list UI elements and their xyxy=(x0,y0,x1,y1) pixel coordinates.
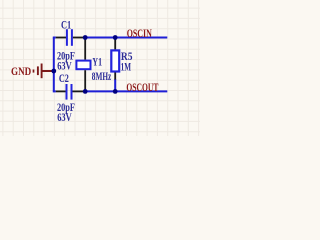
capacitor C2 xyxy=(53,73,85,124)
svg-text:OSCIN: OSCIN xyxy=(127,28,153,40)
svg-text:C1: C1 xyxy=(61,20,71,32)
C1 plate 1 xyxy=(66,29,68,46)
wire: bottom rail, node OSCOUT xyxy=(85,90,167,92)
wire: R5 bottom connection xyxy=(114,79,116,91)
svg-text:GND: GND xyxy=(11,66,31,78)
junction node C (bottom, crystal/C2/rail) xyxy=(83,89,88,94)
ground bar 2 xyxy=(37,66,39,75)
junction node B (top, R5/rail) xyxy=(113,35,118,40)
ground bar 3 xyxy=(41,64,43,79)
R5 pin 2 xyxy=(114,73,116,80)
C1 plate 2 xyxy=(71,29,73,46)
svg-text:63V: 63V xyxy=(57,61,72,73)
ground stem wire xyxy=(42,70,54,72)
svg-text:1M: 1M xyxy=(121,61,131,73)
grid (decorative) xyxy=(0,0,200,136)
wire: top rail, node OSCIN xyxy=(85,37,167,39)
wire stub to C2 pin 1 xyxy=(53,90,56,92)
svg-text:OSCOUT: OSCOUT xyxy=(126,82,158,94)
svg-text:Y1: Y1 xyxy=(92,57,102,69)
junction node A (top, crystal/C1/rail) xyxy=(83,35,88,40)
wire: left vertical bus from C1 pin to C2 pin xyxy=(53,38,55,92)
junction dot GND node xyxy=(51,69,56,74)
R5 pin 1 xyxy=(114,38,116,50)
C2 plate 2 xyxy=(71,84,73,100)
crystal Y1 xyxy=(76,38,111,92)
wire stub to C1 pin 1 xyxy=(53,37,56,39)
svg-text:63V: 63V xyxy=(57,112,72,124)
junction node D (bottom, R5/rail) xyxy=(113,89,118,94)
R5 resistor body xyxy=(111,50,119,71)
svg-text:C2: C2 xyxy=(59,73,69,85)
C1 pin 2 xyxy=(73,37,85,39)
C2 pin 2 xyxy=(73,90,86,92)
svg-text:8MHz: 8MHz xyxy=(92,71,112,83)
C2 pin 1 xyxy=(56,90,66,92)
capacitor C1 xyxy=(53,20,85,73)
resistor R5 xyxy=(111,38,132,80)
Y1 crystal body xyxy=(76,61,90,70)
ground power port GND xyxy=(11,64,54,79)
C2 plate 1 xyxy=(66,84,68,100)
ground bar 1 xyxy=(33,70,35,73)
Y1 pin 1 xyxy=(84,38,86,60)
C1 pin 1 xyxy=(56,37,66,39)
Y1 pin 2 xyxy=(84,70,86,91)
